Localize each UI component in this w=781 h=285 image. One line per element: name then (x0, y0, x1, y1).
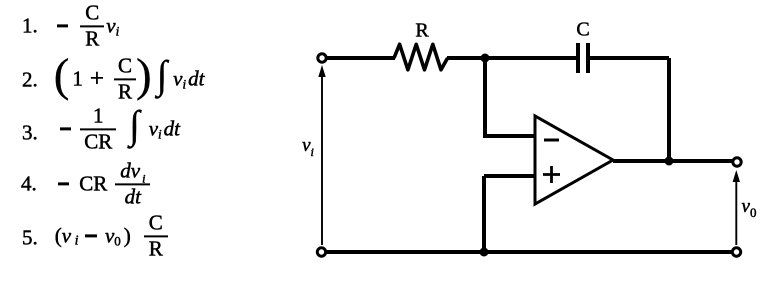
resistor R (394, 44, 448, 70)
wire: ground rail bottom (327, 250, 731, 254)
wire: node A down to inverting input (483, 58, 487, 136)
answer option 4: -CR dvi/dt (21, 161, 150, 206)
wire: node A to capacitor (485, 56, 577, 60)
ground rail junction dot (480, 248, 489, 257)
wire: input terminal to resistor (327, 56, 395, 60)
label R (resistor value) (415, 20, 428, 43)
wire: resistor to node A (447, 56, 485, 60)
v0 reference arrow (733, 170, 740, 245)
input terminal bottom (open circle) (317, 248, 325, 256)
op-amp inverting input label (minus) (544, 139, 559, 142)
output terminal bottom (open circle) (732, 248, 740, 256)
output terminal top (open circle) (733, 158, 741, 166)
label v0 (net name) (742, 196, 757, 218)
wire: capacitor to feedback corner (590, 56, 669, 60)
answer option 1: -(C/R)vi (22, 3, 119, 48)
label C (capacitor value) (576, 19, 589, 42)
answer option 5: (vi-v0)C/R (22, 213, 168, 258)
wire: feedback vertical down to output node (667, 58, 671, 161)
op-amp non-inverting input label (plus) (543, 166, 560, 183)
label vi (net name) (302, 135, 314, 157)
wire: non-inverting input down to ground rail (482, 176, 486, 252)
vi reference arrow (318, 65, 325, 245)
wire: inverting input horizontal (483, 134, 535, 138)
node A junction dot (481, 54, 490, 63)
op-amp U1 (535, 116, 613, 204)
wire: non-inverting input horizontal (484, 174, 535, 178)
answer option 3: -(1/CR)∫vi dt (22, 106, 180, 151)
capacitor C (578, 43, 588, 73)
input terminal top (open circle) (318, 54, 326, 62)
output node junction dot (665, 157, 674, 166)
wire: op-amp output (613, 159, 737, 163)
answer option 2: (1+C/R)∫vi dt (22, 56, 204, 101)
